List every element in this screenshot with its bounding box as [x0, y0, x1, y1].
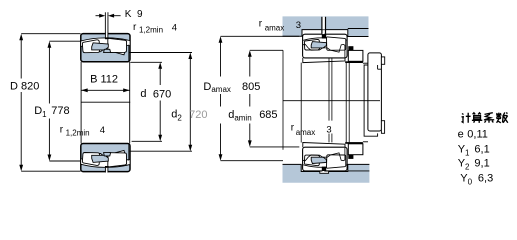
svg-text:B 112: B 112 — [90, 73, 118, 85]
svg-text:670: 670 — [153, 88, 171, 100]
svg-text:778: 778 — [51, 105, 69, 117]
side face line right — [129, 62, 131, 143]
dimension D 820 — [21, 34, 80, 172]
glyph 系 — [484, 113, 494, 123]
bearing upper half-section — [303, 34, 348, 63]
lock nut upper — [348, 50, 363, 61]
svg-text:r: r — [291, 123, 295, 134]
housing bore and shoulder contour — [283, 30, 369, 37]
shaft end washer plate — [368, 53, 382, 131]
dimension D1 778 — [49, 41, 80, 161]
svg-text:685: 685 — [259, 109, 277, 121]
axis line — [81, 101, 130, 103]
svg-text:Y0: Y0 — [460, 173, 472, 187]
svg-text:damin: damin — [228, 109, 251, 123]
axis line right drawing — [283, 100, 380, 102]
bearing lower half-section (mirror) — [303, 143, 348, 172]
dimension B 112 — [81, 89, 130, 91]
dimension d2 720 — [129, 53, 192, 152]
svg-text:6,3: 6,3 — [478, 173, 493, 185]
shaft surface line right block — [348, 170, 370, 172]
svg-text:1,2min: 1,2min — [139, 26, 163, 35]
shaft abutment contour — [283, 164, 370, 171]
svg-text:1,2min: 1,2min — [66, 129, 90, 138]
upper bearing half-section — [81, 33, 131, 62]
svg-text:6,1: 6,1 — [474, 144, 489, 156]
svg-text:D 820: D 820 — [10, 80, 39, 92]
glyph 计 — [462, 113, 471, 123]
svg-text:9,1: 9,1 — [474, 158, 489, 170]
svg-text:0,11: 0,11 — [467, 128, 488, 140]
svg-text:3: 3 — [296, 20, 301, 31]
svg-text:3: 3 — [326, 125, 331, 136]
dimension d 670 — [130, 62, 162, 141]
sleeve flange lower (thick) — [345, 142, 363, 144]
svg-text:Y1: Y1 — [458, 144, 470, 158]
svg-text:e: e — [458, 128, 464, 140]
housing abutment top (blue) — [283, 16, 369, 36]
dimension K 9 — [96, 12, 121, 33]
svg-text:9: 9 — [137, 9, 143, 20]
svg-text:4: 4 — [172, 22, 177, 33]
sleeve flange upper (thick) — [345, 61, 363, 63]
svg-text:805: 805 — [242, 81, 260, 93]
svg-text:720: 720 — [189, 109, 207, 121]
lubrication notch bottom — [320, 171, 329, 173]
svg-text:Y2: Y2 — [458, 158, 470, 172]
svg-text:K: K — [125, 9, 132, 20]
dimension Damax 805 — [221, 36, 300, 160]
svg-text:D1: D1 — [34, 105, 47, 119]
glyph 算 — [472, 113, 482, 123]
sleeve slit lines — [328, 59, 330, 121]
lock nut lower — [348, 144, 363, 155]
shaft abutment bottom (blue) — [283, 164, 370, 182]
svg-text:4: 4 — [100, 125, 105, 136]
header: CJK 计算系数 drawn as paths — [462, 112, 508, 123]
sleeve tail lines — [363, 63, 382, 142]
side face line left — [80, 62, 82, 143]
svg-text:r: r — [60, 125, 64, 136]
lower bearing half-section (mirror) — [81, 143, 131, 172]
svg-text:r: r — [133, 22, 137, 33]
plate protrusion lower — [381, 121, 384, 134]
svg-text:amax: amax — [296, 128, 316, 137]
bearing face lines through shaft region — [300, 63, 302, 143]
dimension damin 685 — [250, 50, 299, 147]
svg-text:amax: amax — [265, 23, 285, 32]
grease stem through housing — [322, 17, 325, 30]
glyph 数 — [496, 112, 508, 122]
abutment face projection line — [282, 50, 284, 149]
svg-text:Damax: Damax — [203, 81, 231, 94]
housing bore line right block — [348, 28, 369, 30]
plate protrusion upper — [381, 57, 384, 64]
svg-text:d2: d2 — [171, 109, 182, 123]
svg-text:r: r — [259, 18, 263, 29]
svg-text:d: d — [140, 88, 146, 100]
